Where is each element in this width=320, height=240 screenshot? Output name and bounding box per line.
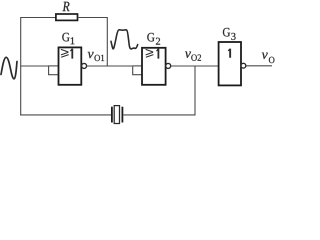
G2 output inversion bubble [166, 63, 171, 68]
gate G1 symbol: greater-equal sign [61, 49, 69, 57]
crystal right plate [121, 107, 123, 123]
gate G1 box [59, 47, 82, 84]
G1 tied-input rectangle [49, 66, 59, 75]
wire: feedback drop to node between G1 and G2 [106, 17, 108, 66]
wire: output vo [246, 65, 272, 67]
value label R [63, 2, 70, 11]
reference label G2 [147, 33, 160, 45]
wire: G1 input [21, 65, 49, 67]
gate G3 box [219, 42, 241, 85]
clipped waveform annotation at node vO1 [111, 30, 138, 49]
wire: top feedback, right segment [78, 17, 108, 19]
wire: bottom rail, right segment [123, 114, 195, 116]
gate G3 symbol: digit 1 [228, 49, 231, 58]
node label vO1 [88, 52, 105, 61]
wire: node vO2 to G3 input [171, 65, 219, 67]
wire: left input rail [20, 17, 22, 116]
wire: bottom rail, left segment [20, 114, 111, 116]
resistor R [56, 14, 78, 20]
wire: top feedback, left segment [21, 17, 56, 19]
gate G2 symbol: greater-equal sign [146, 49, 154, 57]
node label vo [262, 53, 275, 64]
reference label G1 [62, 33, 74, 44]
gate G2 symbol: digit 1 [156, 49, 159, 59]
reference label G3 [223, 28, 236, 40]
gate G2 box [142, 48, 166, 85]
G2 tied-input rectangle [133, 66, 142, 75]
crystal left plate [111, 107, 113, 123]
G3 output inversion bubble [241, 63, 246, 68]
G1 output inversion bubble [82, 63, 87, 68]
wire: node vO1 to G2 input [87, 65, 132, 67]
node label vO2 [185, 52, 201, 61]
wire: crystal feedback drop from node vO2 [194, 66, 196, 116]
crystal body rectangle [114, 106, 119, 124]
gate G1 symbol: digit 1 [70, 49, 73, 59]
sine waveform annotation at input [1, 57, 17, 79]
